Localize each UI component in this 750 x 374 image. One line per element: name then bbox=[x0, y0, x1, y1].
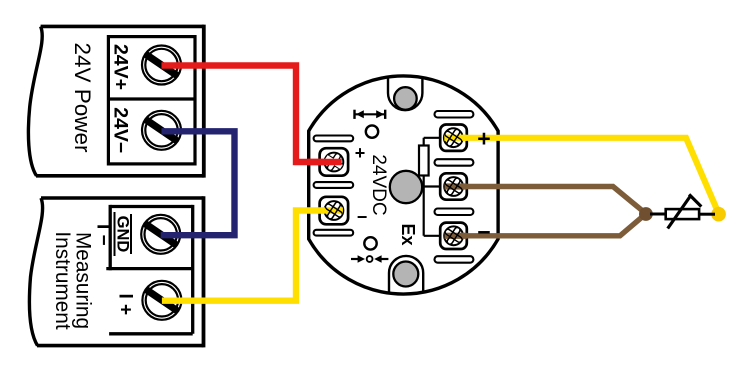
dimension arrow symbol bbox=[355, 110, 386, 119]
svg-text:+: + bbox=[477, 125, 490, 151]
svg-text:24V+: 24V+ bbox=[110, 44, 132, 90]
wire TB2 right edge bbox=[191, 205, 194, 334]
svg-text:24V−: 24V− bbox=[110, 107, 132, 153]
internal wire bus right side bbox=[423, 138, 425, 236]
left slot 2 bbox=[314, 182, 354, 188]
wire TB2 left edge upper bbox=[109, 205, 112, 270]
wire GND overline bbox=[130, 214, 132, 254]
svg-text:−: − bbox=[477, 219, 490, 245]
screw S1 head bbox=[440, 125, 466, 151]
hole upper small bbox=[366, 125, 378, 137]
wire right edge of PS1 bbox=[202, 25, 206, 178]
screw S2 head bbox=[441, 173, 467, 199]
wire blue 24V- to GND bbox=[161, 131, 235, 235]
wire bottom edge of M1 bbox=[37, 344, 204, 348]
mounting slot top of U1 bbox=[388, 77, 422, 110]
right slot 2 bbox=[435, 159, 474, 166]
screw TX- head bbox=[321, 197, 347, 223]
wire yellow transmitter minus to I+ bbox=[162, 211, 334, 301]
mounting slot bottom of U1 bbox=[389, 256, 423, 293]
transmitter U1 housing outline bbox=[309, 76, 498, 294]
screw TX+ head bbox=[321, 149, 347, 175]
right slot 3 bbox=[435, 209, 474, 216]
svg-text:GND: GND bbox=[114, 216, 132, 253]
terminal square S2 right middle bbox=[440, 173, 467, 199]
wire red tail over screw bbox=[308, 159, 342, 165]
left slot 3 bbox=[314, 230, 354, 236]
svg-text:−: − bbox=[357, 207, 368, 227]
wire brown band over screw S2 bbox=[445, 183, 467, 189]
terminal square TX+ left top bbox=[320, 148, 349, 176]
RTD strike flag bbox=[689, 194, 701, 206]
wire RTD lead left bbox=[650, 213, 666, 216]
wire top edge of M1 bbox=[41, 196, 204, 200]
screw terminal GND bbox=[141, 215, 180, 254]
svg-text:I −: I − bbox=[93, 224, 114, 246]
resistor R1 internal bbox=[419, 146, 429, 176]
internal wire stub to terminal 3 bbox=[424, 235, 446, 237]
terminal block TB1 of power supply bbox=[108, 37, 195, 164]
mounting hole bottom of U1 bbox=[393, 262, 418, 287]
wire TB2 bottom edge bbox=[109, 332, 193, 335]
wire yellow sensor lead 1 bbox=[453, 138, 718, 212]
svg-text:+: + bbox=[355, 143, 366, 163]
mounting hole top of U1 bbox=[394, 87, 417, 110]
left slot 1 bbox=[314, 136, 354, 142]
wire right edge of M1 bbox=[202, 196, 206, 347]
terminal square TX- left bottom bbox=[320, 197, 349, 225]
wire divider of TB1 bbox=[108, 97, 195, 100]
wire top edge of PS1 bbox=[41, 25, 204, 29]
wire bottom edge of PS1 bbox=[36, 174, 204, 178]
terminal square S1 right top bbox=[440, 125, 467, 151]
node brown junction bbox=[639, 207, 653, 221]
svg-text:24VDC: 24VDC bbox=[368, 154, 389, 215]
right slot 4 bbox=[435, 256, 474, 263]
wire brown sensor lead 3 bbox=[454, 214, 646, 236]
wire divider of TB2 bbox=[106, 267, 192, 270]
wire yellow band over screw TX- bbox=[321, 207, 343, 213]
screw S3 head bbox=[441, 223, 467, 249]
node yellow junction bbox=[711, 207, 726, 222]
wire RTD lead right bbox=[699, 213, 715, 216]
center hole of U1 bbox=[390, 171, 422, 203]
terminal block TB2 of measuring instrument bbox=[106, 205, 192, 334]
svg-text:24V Power: 24V Power bbox=[70, 42, 95, 153]
hole lower small bbox=[364, 237, 376, 249]
wire brown sensor lead 2 bbox=[454, 187, 646, 214]
svg-text:Instrument: Instrument bbox=[51, 231, 74, 329]
svg-text:I +: I + bbox=[115, 293, 136, 315]
measuring instrument box M1 bbox=[29, 196, 203, 347]
wire TB2 top edge bbox=[110, 205, 193, 208]
wire yellow band over screw S1 bbox=[444, 135, 466, 141]
right slot 1 bbox=[435, 111, 474, 118]
screw terminal 24V+ bbox=[142, 46, 181, 85]
screw terminal 24V- bbox=[142, 111, 181, 150]
terminal square S3 right bottom bbox=[440, 223, 467, 249]
centering arrows symbol bbox=[351, 255, 388, 263]
RTD diagonal strike bbox=[668, 195, 691, 229]
screw terminal I+ bbox=[142, 281, 181, 320]
wire wavy left break edge of PS1 bbox=[28, 26, 42, 175]
wire wavy left break edge of M1 bbox=[29, 198, 42, 346]
wire red 24V+ to transmitter plus bbox=[162, 66, 334, 163]
internal wire stub to terminal 1 bbox=[424, 137, 446, 139]
wire brown band over screw S3 bbox=[445, 233, 467, 239]
internal wire stub to terminal 2 bbox=[424, 185, 446, 187]
RTD sensor RT1 body bbox=[666, 209, 699, 219]
wire GND underline bbox=[114, 212, 116, 256]
svg-text:Ex: Ex bbox=[398, 223, 418, 245]
24V power supply box PS1 bbox=[28, 25, 203, 178]
